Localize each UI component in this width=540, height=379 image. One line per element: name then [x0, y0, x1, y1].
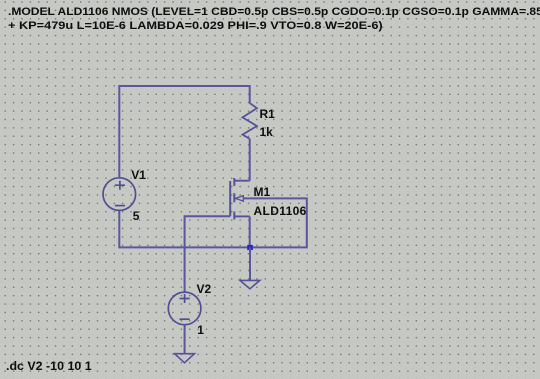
wire bottom rail — [119, 210, 249, 247]
voltage source V2 circle — [168, 292, 201, 325]
label M1 — [254, 186, 271, 198]
spice directive .MODEL line 1 — [8, 7, 540, 18]
value 5 — [133, 210, 140, 222]
transistor M1 drain lead — [234, 180, 249, 182]
value 1 — [197, 324, 204, 336]
label V2 — [197, 283, 212, 295]
V1 plus sign — [115, 181, 125, 190]
label V1 — [131, 169, 146, 181]
spice directive .MODEL line 2 — [8, 21, 383, 32]
transistor M1 bulk arrow — [236, 196, 244, 201]
voltage source V1 circle — [103, 178, 136, 211]
V2 plus sign — [180, 294, 190, 303]
ground symbol at V2 — [175, 354, 195, 363]
junction node source/ground — [247, 245, 253, 250]
transistor M1 bottom plate — [233, 212, 235, 220]
ground symbol at source node — [240, 280, 260, 288]
wire bulk loop right — [250, 198, 307, 247]
transistor M1 mid plate — [233, 193, 235, 202]
wire R1 to M1 drain — [249, 139, 251, 181]
spice directive .dc sweep — [6, 360, 92, 372]
V2 minus sign — [180, 318, 190, 320]
resistor R1 — [243, 103, 257, 139]
V1 minus sign — [115, 205, 125, 207]
wire gate to V2 column — [185, 216, 231, 292]
label R1 — [260, 108, 275, 120]
value 1k — [260, 126, 273, 138]
transistor M1 bulk lead — [234, 197, 236, 199]
value ALD1106 — [254, 205, 307, 217]
wire V2 to ground — [184, 325, 186, 354]
transistor M1 source lead — [234, 215, 249, 217]
wire top rail V1 to R1 — [119, 86, 249, 178]
transistor M1 top plate — [233, 178, 235, 186]
wire source column — [249, 216, 251, 247]
transistor M1 gate bar — [229, 181, 231, 216]
wire junction to ground — [249, 247, 251, 280]
